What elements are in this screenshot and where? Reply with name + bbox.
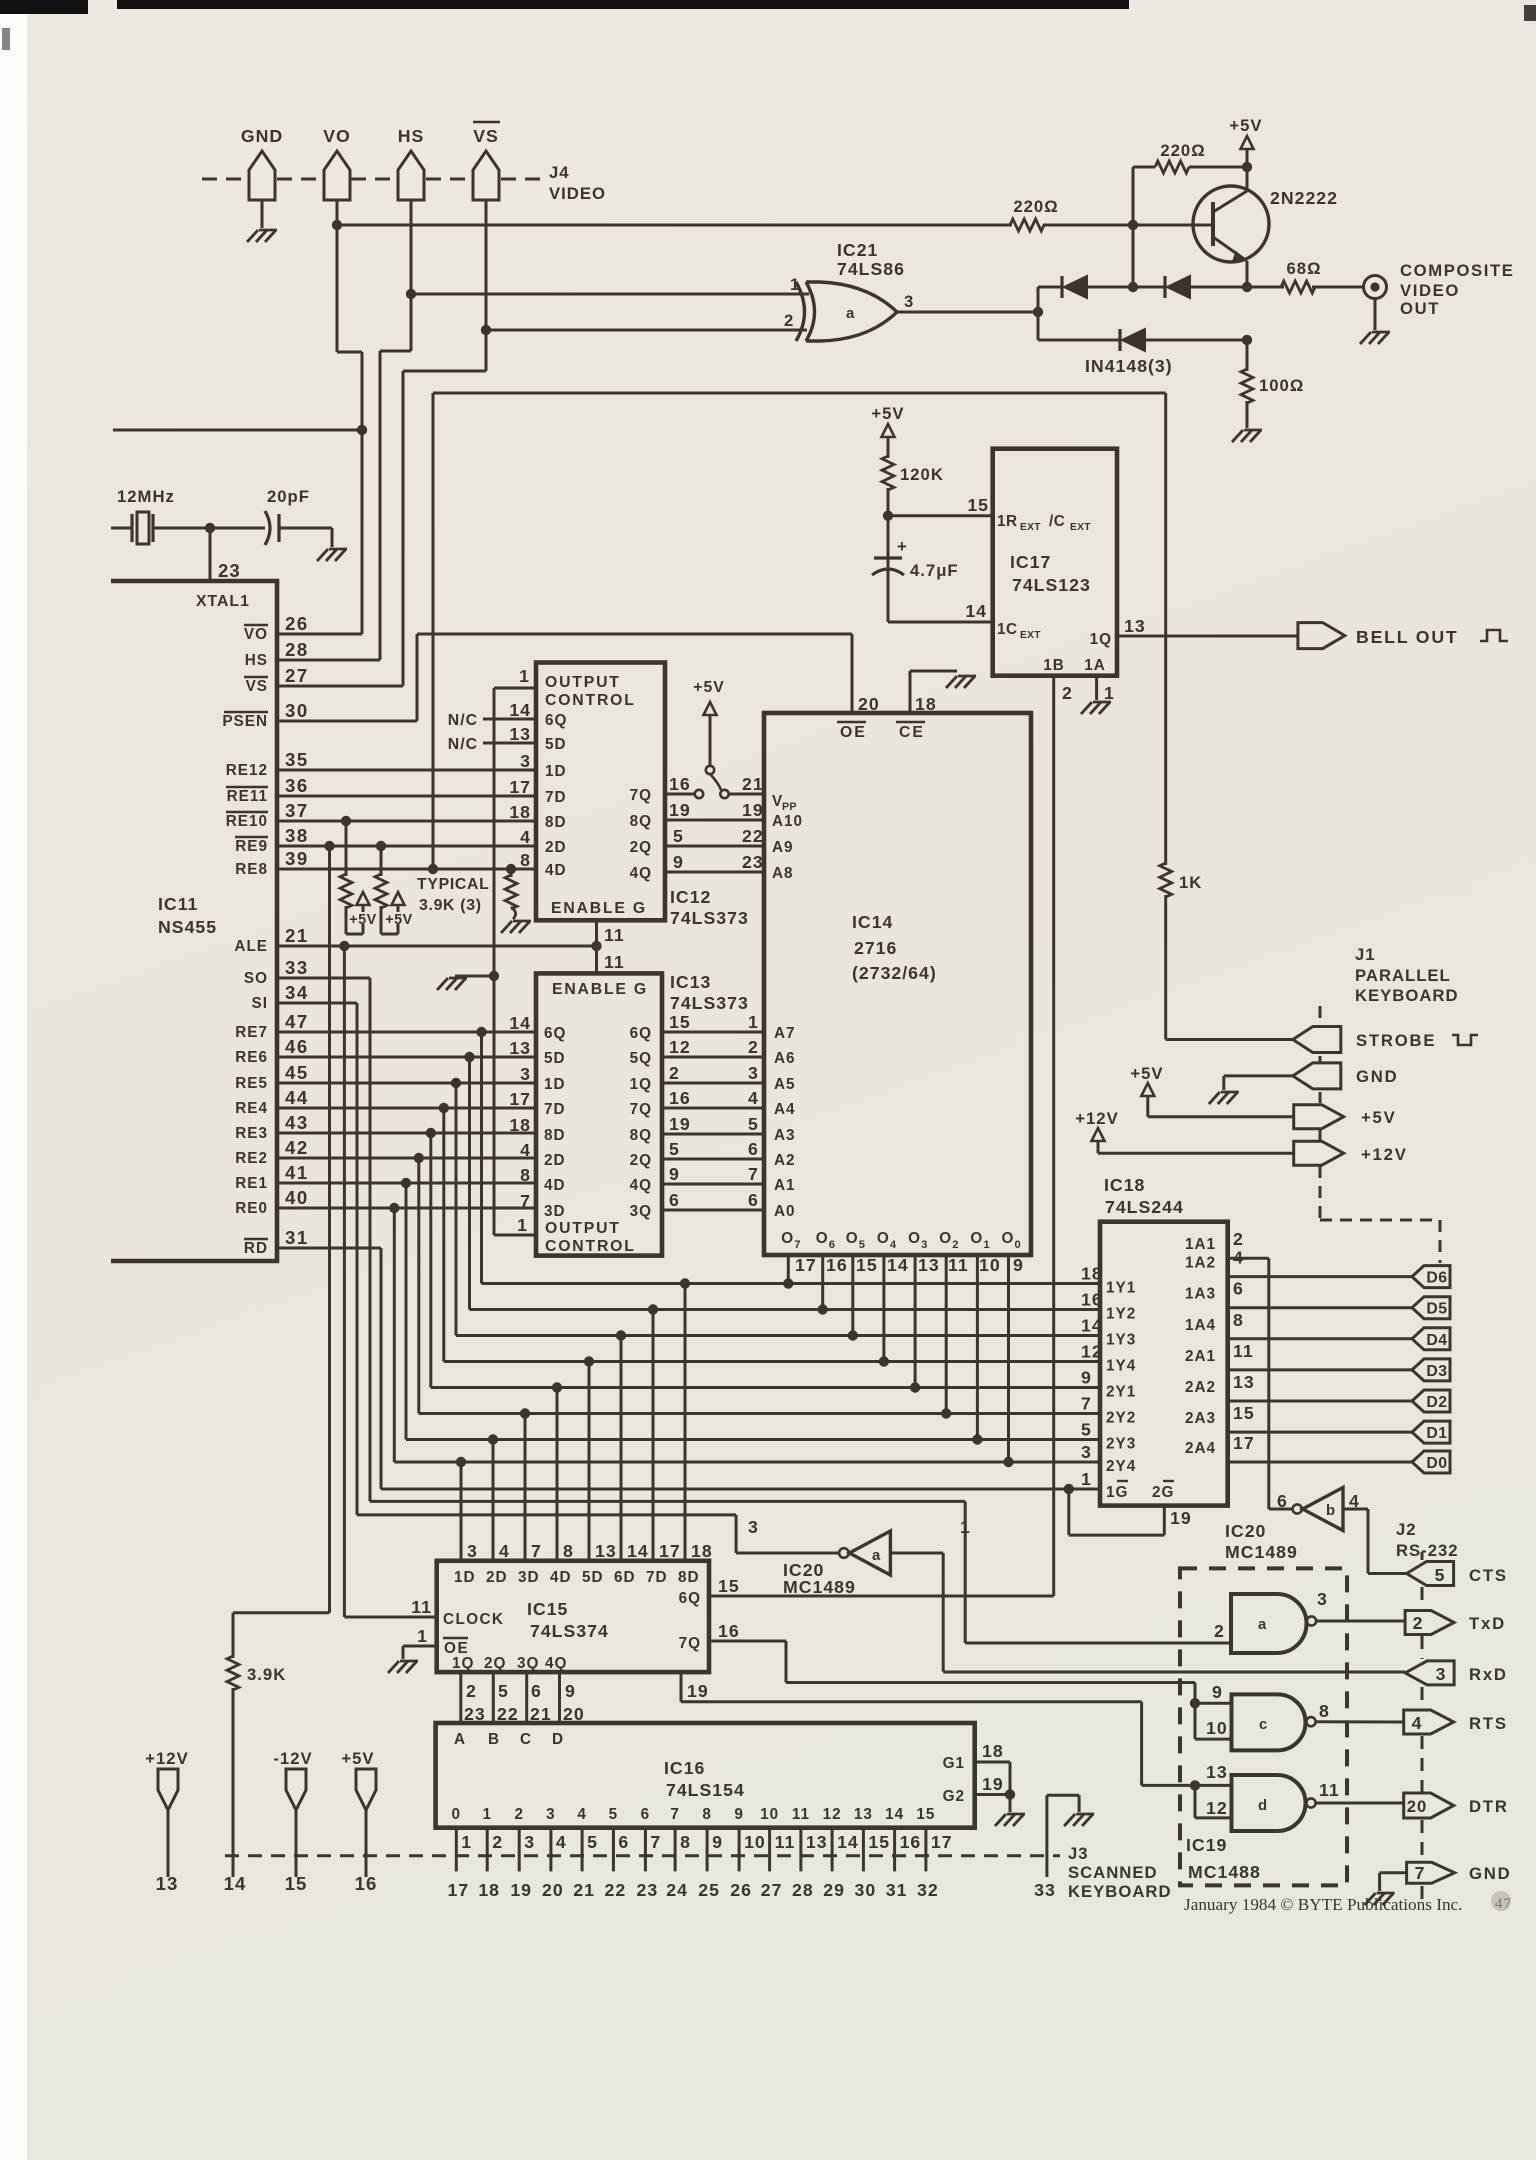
svg-text:13: 13 [595,1541,617,1561]
svg-text:100Ω: 100Ω [1259,376,1304,395]
svg-text:RxD: RxD [1469,1665,1508,1684]
svg-text:8: 8 [680,1832,691,1852]
wire inverter a input from RxD [890,1552,943,1555]
chip IC17 74LS123 outline [993,449,1117,676]
svg-text:GND: GND [241,126,283,146]
svg-text:1: 1 [790,275,800,294]
svg-text:8D: 8D [544,1127,566,1144]
wire jack to ground [1374,299,1377,330]
svg-text:A8: A8 [772,865,794,882]
svg-text:19: 19 [742,800,764,820]
svg-text:17: 17 [509,777,531,797]
svg-text:VO: VO [323,126,351,146]
wire gate d out to DTR [1316,1802,1404,1805]
svg-text:RE1: RE1 [235,1175,268,1192]
svg-text:3: 3 [748,1063,759,1083]
junction emitter [1242,282,1252,292]
svg-text:2: 2 [784,311,794,330]
svg-text:17: 17 [1233,1433,1255,1453]
svg-text:1: 1 [1104,683,1115,703]
svg-text:8: 8 [1233,1310,1244,1330]
svg-text:2Q: 2Q [484,1655,506,1672]
svg-text:D4: D4 [1426,1332,1447,1349]
junction emitter/100-ohm [1242,335,1252,345]
junction RE8 riser to strobe net [428,864,438,874]
svg-text:EXT: EXT [1070,522,1091,533]
connector D3 [1412,1359,1450,1381]
svg-text:120K: 120K [900,465,944,484]
wires IC13 outputs to IC14 address pins [662,1031,764,1034]
IC13 pin11 stub [595,946,598,973]
svg-text:74LS374: 74LS374 [530,1621,609,1641]
svg-text:D0: D0 [1426,1455,1447,1472]
svg-text:0: 0 [1015,1239,1022,1251]
wire switch to IC14 VPP [729,793,764,796]
wires IC18 A inputs to D connectors [1228,1275,1412,1278]
svg-text:13: 13 [1206,1762,1228,1782]
svg-text:IC21: IC21 [837,240,878,260]
connector J2 CTS [1407,1562,1454,1586]
svg-text:15: 15 [718,1576,740,1596]
connector J1 +5V [1294,1105,1344,1129]
svg-text:18: 18 [1081,1264,1103,1284]
svg-text:IC11: IC11 [158,894,198,914]
wire inverter b out [1269,1508,1293,1511]
connector D0 [1412,1451,1450,1473]
wire to 20pF [210,527,265,530]
connector J4 VS pin [473,151,499,200]
svg-text:VO: VO [244,626,268,643]
connector J2 RTS [1404,1710,1454,1734]
svg-text:28: 28 [285,639,309,660]
svg-text:8D: 8D [678,1569,700,1586]
svg-text:3Q: 3Q [630,1203,652,1220]
J1 dashed boundary [1319,1006,1322,1024]
svg-text:6Q: 6Q [630,1025,652,1042]
svg-text:c: c [1259,1717,1268,1733]
svg-text:32: 32 [917,1880,939,1900]
diode D3 1N4148 [1038,339,1120,342]
svg-text:6: 6 [829,1239,836,1251]
IC15 bottom stubs to IC16 [459,1672,462,1723]
svg-text:11: 11 [775,1832,796,1852]
wire IC15 7Q to nand c [709,1640,786,1643]
svg-text:1A2: 1A2 [1185,1255,1216,1272]
svg-text:19: 19 [669,800,691,820]
svg-text:8Q: 8Q [630,813,652,830]
wire SI to inverter a out [278,1002,357,1005]
resistor 120K [882,456,894,490]
junction XOR out at diode ladder [1033,307,1043,317]
svg-text:9: 9 [1081,1368,1092,1388]
junction nand c inputs [1190,1698,1200,1708]
bus wires O7..O0 from RE risers to IC18 [480,1032,483,1284]
wire +12V to connector [1098,1152,1294,1155]
svg-text:5: 5 [748,1114,759,1134]
wire VS net: connector down, run to XOR pin2, jog to IC11 pin 27 [485,200,488,371]
svg-text:4Q: 4Q [545,1655,567,1672]
ground at 20pF [329,548,347,551]
svg-text:5Q: 5Q [630,1050,652,1067]
svg-text:A10: A10 [772,813,803,830]
svg-text:6Q: 6Q [544,1025,566,1042]
junction diode row1 mid [1128,282,1138,292]
J2 dashed boundary [1421,1552,1424,1560]
svg-text:VS: VS [246,678,268,695]
svg-text:ENABLE G: ENABLE G [551,900,647,917]
svg-text:2716: 2716 [854,938,897,958]
svg-text:19: 19 [669,1114,691,1134]
svg-text:3: 3 [524,1832,535,1852]
svg-text:a: a [872,1548,881,1564]
svg-text:7: 7 [531,1541,542,1561]
svg-text:19: 19 [687,1681,709,1701]
ground at J2 GND [1377,1892,1395,1895]
svg-text:5: 5 [1435,1565,1446,1585]
wire 20pF to ground [279,527,332,530]
wire emitter node [1246,261,1249,287]
svg-text:2Y4: 2Y4 [1106,1458,1136,1475]
svg-text:4: 4 [748,1088,759,1108]
svg-text:16: 16 [669,774,691,794]
svg-text:14: 14 [887,1255,909,1275]
svg-text:XTAL1: XTAL1 [196,593,250,610]
svg-text:3D: 3D [518,1569,540,1586]
svg-text:RE9: RE9 [235,838,268,855]
svg-text:A: A [454,1731,466,1748]
svg-text:14: 14 [509,700,531,720]
svg-text:17: 17 [795,1255,817,1275]
wire PSEN to IC14 OE [278,720,417,723]
svg-text:EXT: EXT [1020,522,1041,533]
svg-text:18: 18 [509,802,531,822]
svg-text:46: 46 [285,1036,309,1057]
svg-text:6: 6 [669,1190,680,1210]
svg-text:CONTROL: CONTROL [545,692,636,709]
svg-text:1Q: 1Q [1090,631,1112,648]
svg-text:47: 47 [1495,1896,1512,1912]
ground at G1/G2 [1007,1813,1025,1816]
svg-text:-12V: -12V [273,1749,312,1768]
svg-text:1: 1 [960,1517,971,1537]
IC15 pin19 stub [680,1672,683,1702]
ground at 100-ohm [1244,429,1262,432]
svg-text:4.7μF: 4.7μF [910,561,959,580]
connector BELL OUT [1298,623,1345,649]
resistor R 3.9K typical #1 [345,821,348,876]
svg-text:3: 3 [467,1541,478,1561]
svg-text:2Y2: 2Y2 [1106,1410,1136,1427]
svg-text:23: 23 [218,560,241,581]
svg-text:43: 43 [285,1112,309,1133]
svg-text:VIDEO: VIDEO [549,184,606,203]
svg-text:14: 14 [885,1806,904,1823]
svg-text:21: 21 [742,774,764,794]
svg-text:+5V: +5V [1229,116,1262,135]
svg-text:5: 5 [587,1832,598,1852]
svg-text:A5: A5 [774,1076,796,1093]
wire 220 pullup vertical [1132,167,1135,287]
svg-text:O: O [939,1230,952,1247]
svg-text:A3: A3 [774,1127,796,1144]
op-gate IC21 74LS86 xor a [796,282,805,341]
svg-text:15: 15 [868,1832,890,1852]
wire IC15 pin19 to nand d [681,1700,1142,1703]
svg-text:COMPOSITE: COMPOSITE [1400,261,1515,280]
svg-text:13: 13 [1233,1372,1255,1392]
svg-text:1D: 1D [544,1076,566,1093]
svg-text:O: O [816,1230,829,1247]
svg-text:SCANNED: SCANNED [1068,1863,1158,1882]
junction RE9 / 3.9K [376,841,386,851]
junction crystal / pin23 [205,523,215,533]
junction enable G [591,941,601,951]
svg-text:A9: A9 [772,839,794,856]
svg-text:1: 1 [748,1012,759,1032]
wire RE8 to IC12 4D [278,868,536,871]
wire strobe net vertical [1164,393,1167,865]
wire RE8 riser to top run [432,393,435,869]
svg-text:8D: 8D [545,814,567,831]
crystal XTAL 12MHz [111,527,132,530]
transistor Q1 2N2222 [1193,186,1269,262]
svg-text:IC15: IC15 [527,1599,568,1619]
svg-text:18: 18 [691,1541,713,1561]
svg-text:1Y2: 1Y2 [1106,1306,1136,1323]
svg-text:3: 3 [1081,1442,1092,1462]
svg-text:17: 17 [509,1089,531,1109]
svg-text:ALE: ALE [234,938,268,955]
svg-text:11: 11 [792,1806,810,1823]
wire IC12 4Q to IC14 A8 [665,871,764,874]
svg-text:RD: RD [244,1240,268,1257]
junction HS [406,289,416,299]
svg-text:EXT: EXT [1020,630,1041,641]
svg-text:1Y3: 1Y3 [1106,1332,1136,1349]
svg-text:15: 15 [856,1255,878,1275]
svg-text:14: 14 [1081,1316,1103,1336]
svg-text:8: 8 [1319,1701,1330,1721]
svg-text:2: 2 [1233,1229,1244,1249]
svg-text:5D: 5D [582,1569,604,1586]
wire RE9 riser to 3.9K pulldown [328,846,331,1613]
svg-text:1A: 1A [1084,657,1106,674]
junction nand d inputs [1190,1780,1200,1790]
svg-text:KEYBOARD: KEYBOARD [1068,1882,1172,1901]
op-gate IC19 d nand [1232,1775,1306,1831]
svg-text:26: 26 [285,613,309,634]
svg-text:+12V: +12V [145,1749,188,1768]
wire 120K to pin15 [887,488,890,516]
ground at J3 pin33 [1076,1813,1094,1816]
svg-text:3: 3 [520,1064,531,1084]
svg-text:HS: HS [245,652,268,669]
wire 68-ohm to jack [1312,286,1364,289]
wire ladder left vertical [1037,287,1040,340]
svg-text:D: D [552,1731,564,1748]
svg-text:12: 12 [1206,1798,1228,1818]
svg-text:D1: D1 [1426,1425,1447,1442]
svg-text:A0: A0 [774,1203,796,1220]
svg-text:1: 1 [983,1239,990,1251]
svg-text:OUT: OUT [1400,299,1440,318]
IC14 output stubs onto bus [787,1255,790,1284]
svg-text:+5V: +5V [349,912,377,928]
svg-text:MC1488: MC1488 [1188,1862,1261,1882]
op-gate IC19 a nand [1231,1594,1307,1653]
svg-text:6Q: 6Q [545,712,567,729]
wire J4 GND to ground [261,200,264,228]
svg-text:2A3: 2A3 [1185,1410,1216,1427]
svg-text:RE11: RE11 [227,788,268,805]
svg-text:1G: 1G [1106,1484,1128,1501]
svg-text:BELL OUT: BELL OUT [1356,627,1459,647]
svg-text:7: 7 [670,1806,680,1823]
svg-text:3: 3 [921,1239,928,1251]
junction 1G/2G tie [1064,1484,1074,1494]
capacitor 4.7uF polarized [887,516,890,622]
wire RE9 to IC12 2D [278,845,536,848]
svg-text:+5V: +5V [1361,1108,1397,1127]
J3 dashed boundary line [225,1854,1060,1857]
svg-text:4Q: 4Q [630,865,652,882]
power +5V arrow J1 [1141,1083,1154,1096]
svg-text:OE: OE [840,724,867,741]
svg-text:DTR: DTR [1469,1797,1509,1816]
svg-text:5D: 5D [544,1050,566,1067]
svg-text:21: 21 [285,925,309,946]
svg-text:2: 2 [492,1832,503,1852]
svg-text:O: O [877,1230,890,1247]
svg-text:D5: D5 [1426,1301,1447,1318]
svg-text:8: 8 [563,1541,574,1561]
svg-text:15: 15 [1233,1403,1255,1423]
wire IC15 OE to ground [403,1645,437,1648]
svg-text:18: 18 [915,694,937,714]
svg-text:4: 4 [520,827,531,847]
wire J1 GND to ground [1224,1074,1293,1077]
svg-text:2A4: 2A4 [1185,1440,1216,1457]
svg-text:HS: HS [398,126,425,146]
svg-text:6: 6 [748,1190,759,1210]
svg-text:74LS244: 74LS244 [1105,1197,1184,1217]
resistor R 3.9K typical #3 [510,869,513,877]
connector D2 [1412,1390,1450,1412]
svg-text:2: 2 [1214,1621,1225,1641]
power +12V arrow J1 [1092,1128,1105,1141]
svg-text:2Y1: 2Y1 [1106,1384,1136,1401]
svg-text:+5V: +5V [1130,1064,1163,1083]
svg-text:1A3: 1A3 [1185,1286,1216,1303]
dashed box IC19 [1180,1568,1347,1885]
svg-text:20: 20 [542,1880,564,1900]
bell pulse waveform glyph [1480,630,1508,641]
connector J4 HS pin [398,151,424,200]
svg-text:13: 13 [1124,616,1146,636]
svg-text:1: 1 [461,1832,472,1852]
svg-text:J4: J4 [549,163,570,182]
IC12/IC13 output-control ground rail [493,688,496,1235]
svg-text:D2: D2 [1426,1394,1447,1411]
svg-text:IC16: IC16 [664,1758,705,1778]
svg-text:7: 7 [748,1164,759,1184]
svg-text:1A1: 1A1 [1185,1236,1216,1253]
svg-text:9: 9 [1212,1682,1223,1702]
wire ALE riser to clock [343,946,346,1617]
svg-text:OUTPUT: OUTPUT [545,1220,621,1237]
svg-text:RE6: RE6 [235,1049,268,1066]
svg-text:O: O [908,1230,921,1247]
svg-text:A6: A6 [774,1050,796,1067]
svg-text:SI: SI [252,995,268,1012]
connector D5 [1412,1297,1450,1319]
svg-text:+5V: +5V [871,404,904,423]
svg-text:40: 40 [285,1187,309,1208]
op-inverter IC20 b [1303,1488,1343,1531]
resistor R 3.9K bottom [232,1613,235,1658]
svg-text:+: + [897,537,908,556]
svg-text:7Q: 7Q [679,1635,701,1652]
svg-text:16: 16 [826,1255,848,1275]
svg-text:11: 11 [604,925,625,945]
svg-text:6: 6 [531,1681,542,1701]
wire 100-ohm to ground [1246,401,1249,428]
svg-text:31: 31 [886,1880,908,1900]
svg-text:STROBE: STROBE [1356,1031,1436,1050]
power +5V arrow 3.9K#2 [397,906,400,912]
wire pin23 stub [209,528,212,581]
svg-text:A7: A7 [774,1025,796,1042]
svg-text:12MHz: 12MHz [117,487,175,506]
svg-text:IC13: IC13 [670,972,711,992]
svg-text:16: 16 [718,1621,740,1641]
svg-text:13: 13 [509,1038,531,1058]
svg-text:1B: 1B [1043,657,1065,674]
svg-text:39: 39 [285,848,309,869]
svg-text:RE0: RE0 [235,1200,268,1217]
svg-text:2Q: 2Q [630,839,652,856]
svg-text:2: 2 [748,1037,759,1057]
ground at OC rail [449,977,467,980]
junction VO at long run [332,220,342,230]
junctions RE bus risers [476,1027,486,1037]
svg-text:9: 9 [669,1164,680,1184]
svg-text:0: 0 [452,1806,462,1823]
chip IC12 74LS373 outline [536,663,665,921]
svg-text:11: 11 [1233,1341,1254,1361]
svg-text:38: 38 [285,825,309,846]
svg-text:1Y1: 1Y1 [1106,1280,1136,1297]
svg-text:3: 3 [904,292,914,311]
wire XOR output to diode block [897,311,1038,314]
wire gate a out to TxD [1316,1620,1405,1623]
svg-text:10: 10 [979,1255,1001,1275]
svg-text:14: 14 [509,1013,531,1033]
svg-text:7: 7 [1415,1863,1426,1883]
strobe pulse waveform glyph [1452,1035,1478,1045]
ground at IC17 1A [1093,701,1111,704]
svg-text:220Ω: 220Ω [1160,141,1205,160]
resistor 68-ohm [1281,281,1315,293]
svg-text:7Q: 7Q [630,787,652,804]
svg-text:8: 8 [702,1806,712,1823]
svg-text:5: 5 [609,1806,619,1823]
connector composite video jack [1364,276,1387,299]
ground at IC15 OE [400,1660,418,1663]
svg-text:13: 13 [509,724,531,744]
svg-text:1A4: 1A4 [1185,1317,1216,1334]
svg-text:17: 17 [659,1541,681,1561]
